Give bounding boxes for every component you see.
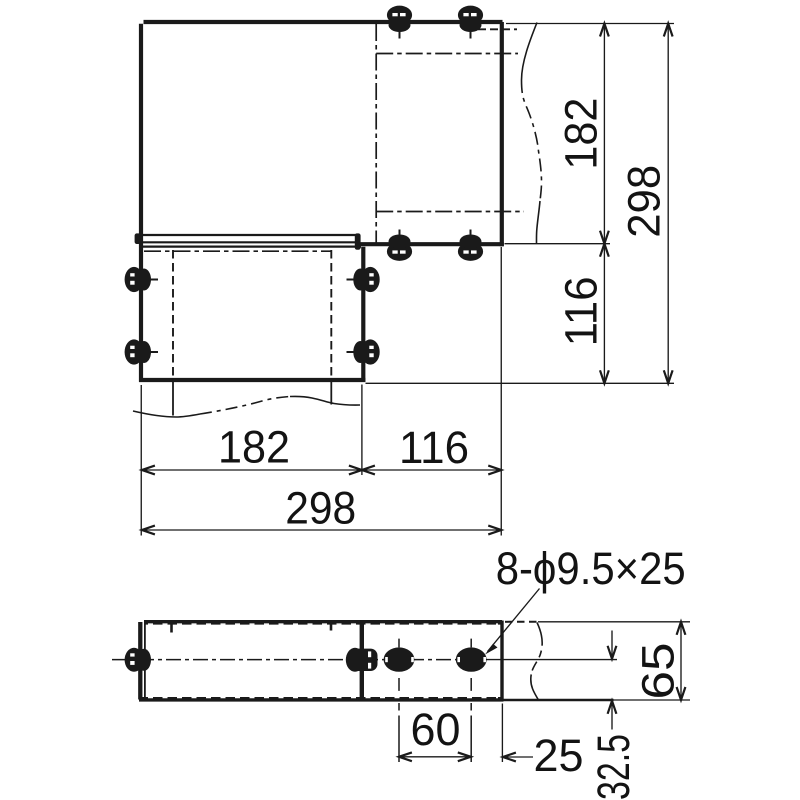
- bolt on top edge (left): [387, 6, 412, 39]
- dimension line 182/116 vertical: [600, 24, 609, 384]
- joint bolt: [346, 648, 378, 672]
- extension line bottom: [366, 382, 675, 384]
- chain line upper (hidden flange) in right arm: [376, 53, 518, 55]
- hole centerline horizontal: [112, 659, 485, 661]
- extension line at flange level: [505, 243, 611, 245]
- bolt under right-arm bottom edge (left): [387, 230, 412, 261]
- lower arm top edge: [143, 246, 361, 248]
- svg-text:8-ϕ9.5×25: 8-ϕ9.5×25: [496, 543, 686, 594]
- dim text 182 (bottom): [218, 421, 290, 472]
- chain line lower (hidden flange) in right arm: [376, 211, 524, 213]
- flange bar left end cap: [135, 233, 141, 244]
- side view left edge inner line: [144, 623, 146, 698]
- joint line between duct pieces: [360, 621, 364, 702]
- bottom edge continuation (medium): [503, 699, 614, 702]
- inner wall stub below break (right): [330, 381, 332, 405]
- chain line hidden flange of lower arm: [144, 250, 331, 252]
- dimension line 65: [677, 622, 686, 700]
- extension line for 25 dim: [501, 704, 503, 763]
- svg-text:116: 116: [556, 276, 607, 346]
- lower arm right edge: [361, 247, 365, 382]
- bolt on lower-arm left edge (upper): [125, 267, 158, 292]
- svg-text:116: 116: [399, 422, 469, 473]
- svg-text:182: 182: [556, 98, 607, 170]
- dim text 298 (bottom): [285, 483, 356, 534]
- bolt on lower-arm left edge (lower): [125, 339, 158, 364]
- callout text 8-phi9.5x25: [496, 543, 686, 594]
- dim text 298 (vertical): [619, 165, 670, 238]
- dimension line 298 vertical: [664, 24, 673, 384]
- svg-text:182: 182: [218, 421, 290, 472]
- side view break line (wavy): [531, 623, 542, 701]
- break line of right arm (wavy, top solid part): [522, 23, 538, 81]
- bolt on lower-arm right edge (upper): [347, 267, 380, 292]
- bolt on lower-arm right edge (lower): [347, 339, 380, 364]
- seam tick right: [330, 623, 333, 631]
- svg-text:25: 25: [534, 730, 584, 781]
- flange bar right end cap: [355, 233, 361, 249]
- break line of right arm (wavy, dashed middle): [522, 80, 542, 201]
- flange bar top line: [139, 234, 357, 236]
- right edge of horizontal arm: [500, 22, 504, 246]
- side view right edge: [500, 621, 503, 702]
- break line lower arm (dashed middle): [200, 397, 290, 415]
- dimension line 182/116 horizontal: [142, 466, 501, 475]
- dim text 60: [411, 704, 461, 755]
- flange bar bottom line: [139, 241, 357, 243]
- dim text 182 (vertical): [556, 98, 607, 170]
- chain vertical line (joint plane) in right arm: [375, 24, 377, 243]
- dim text 25: [534, 730, 584, 781]
- hole centerline extension to 32.5 dim: [485, 659, 617, 661]
- side view bottom edge: [139, 698, 503, 700]
- dimension 32.5 upper arrow: [608, 631, 617, 659]
- dimension line 298 horizontal: [142, 526, 501, 535]
- svg-text:65: 65: [633, 643, 684, 700]
- side view left edge outer: [138, 622, 142, 700]
- bottom edge of right arm: [361, 242, 504, 246]
- hole bolt 1 (phi 9.5): [384, 647, 415, 671]
- hidden line left inner wall of lower arm: [172, 250, 174, 381]
- svg-text:32.5: 32.5: [588, 734, 639, 800]
- lower arm bottom edge: [139, 378, 365, 382]
- left edge of horizontal arm (continues through flange to lower arm): [139, 24, 143, 382]
- dim text 65 (vertical): [633, 643, 684, 700]
- dim text 32.5 (vertical): [588, 734, 639, 800]
- bolt under right-arm bottom edge (right): [458, 230, 483, 261]
- svg-text:60: 60: [411, 704, 461, 755]
- bolt on top edge (right): [458, 6, 483, 39]
- leader line for hole callout: [485, 589, 540, 655]
- extension line top: [506, 23, 674, 25]
- bottom extension line to 65 dim: [614, 699, 691, 701]
- top extension line to 65 dim: [538, 621, 690, 623]
- hole bolt 2 centerline vertical: [470, 639, 472, 762]
- dim text 116 (bottom): [399, 422, 469, 473]
- side view left end bolt: [125, 648, 151, 672]
- break line of right arm (wavy, bottom solid part): [536, 201, 540, 244]
- hidden line right inner wall of lower arm: [330, 250, 332, 381]
- top edge dashed continuation in break zone: [505, 621, 538, 623]
- dimension line 60: [399, 752, 471, 761]
- extension line right: [500, 247, 502, 536]
- break line lower arm (left solid): [133, 411, 200, 417]
- dimension line 25 with arrow: [503, 753, 533, 762]
- hole bolt 2 (phi 9.5): [456, 647, 487, 671]
- svg-text:298: 298: [619, 165, 670, 238]
- seam tick left: [170, 623, 173, 633]
- top edge of horizontal arm: [144, 20, 503, 24]
- extension line middle: [361, 385, 363, 476]
- hidden dashed stub under top edge near right corner: [478, 28, 517, 30]
- extension line left: [140, 385, 142, 536]
- side view top edge: [144, 622, 502, 624]
- dimension 32.5 lower arrow: [608, 701, 617, 730]
- svg-text:298: 298: [285, 483, 356, 534]
- dim text 116 (vertical): [556, 276, 607, 346]
- inner wall stub below break (left): [172, 381, 174, 416]
- break line lower arm (right solid): [290, 396, 360, 405]
- hole bolt 1 centerline vertical: [398, 639, 400, 762]
